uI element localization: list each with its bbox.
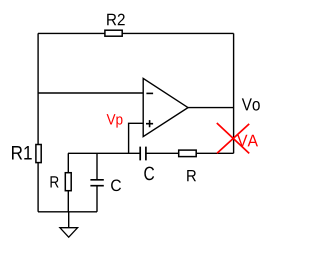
wire cap to output branch (146, 152, 233, 154)
label R1 (12, 146, 32, 160)
label R of grounded RC (51, 176, 59, 187)
wire top feedback (38, 32, 234, 34)
label Vo (242, 98, 260, 110)
wire C branch vertical lower (96, 186, 98, 212)
label VA (237, 135, 258, 147)
resistor R2 (105, 30, 122, 36)
capacitor C (series) (140, 147, 146, 161)
wire left vertical (37, 33, 39, 211)
label C of grounded RC (111, 180, 121, 192)
wire noninverting input (129, 123, 144, 153)
wire right vertical (233, 33, 235, 153)
wire inverting input (38, 92, 143, 94)
label R2 (107, 14, 125, 26)
wire C branch vertical (96, 153, 98, 179)
capacitor C (grounded RC) (90, 180, 103, 186)
cross-out mark over node A (217, 123, 249, 153)
label Vp (107, 114, 123, 128)
op-amp U1 (143, 78, 188, 136)
resistor R (grounded RC) (65, 173, 71, 191)
wire RC node horizontal (68, 152, 140, 154)
label C series (144, 167, 154, 181)
resistor R1 (36, 145, 41, 163)
wire R branch vertical (67, 153, 69, 212)
ground (60, 212, 78, 237)
wire output (188, 107, 234, 109)
wire bottom ground rail (38, 211, 97, 213)
label R series (187, 170, 196, 181)
resistor R (series to VA) (179, 150, 197, 157)
